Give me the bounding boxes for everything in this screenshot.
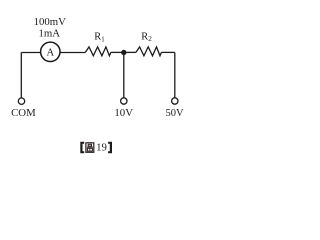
wire R1 to junction [111,51,124,53]
wire R2 to right corner [161,51,174,53]
ammeter A [41,42,60,61]
svg-text:1mA: 1mA [38,28,60,40]
caption glyph tu (figure) [86,143,94,153]
caption bracket left [80,142,84,153]
svg-text:COM: COM [11,107,36,119]
terminal 10V [121,98,127,104]
svg-text:10V: 10V [114,107,133,119]
svg-text:A: A [46,48,54,59]
svg-text:100mV: 100mV [34,16,67,28]
resistor R2 [136,47,162,56]
caption bracket right [108,142,112,153]
wire left vertical to COM terminal [20,53,22,99]
terminal 50V [172,98,178,104]
svg-text:19: 19 [96,141,107,153]
wire ammeter right to R1 [60,52,85,54]
terminal COM [18,98,24,104]
svg-text:50V: 50V [166,108,185,119]
wire junction to R2 [124,51,136,53]
wire ammeter left to corner [21,52,40,54]
junction node [121,50,126,55]
wire right vertical to 50V terminal [174,53,176,98]
wire junction down to 10V terminal [123,53,125,98]
resistor R1 [85,47,111,56]
